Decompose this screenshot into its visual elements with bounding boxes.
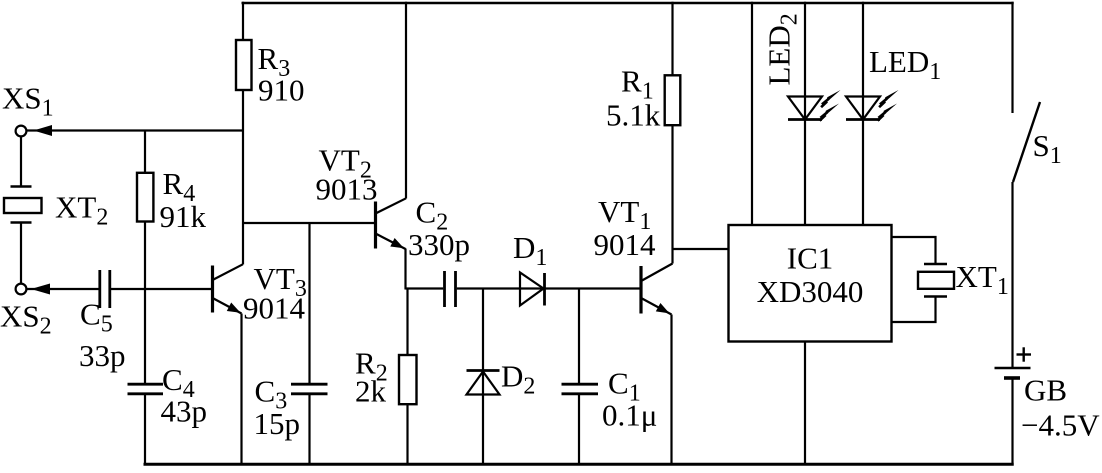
- wire C3 vertical upper: [308, 222, 310, 384]
- wire right rail above S1: [1011, 2, 1013, 113]
- svg-text:15p: 15p: [254, 406, 301, 441]
- wire base bus y=223 to VT2: [243, 222, 374, 224]
- wire C5 to VT3 base: [111, 288, 211, 290]
- svg-text:2k: 2k: [355, 374, 387, 409]
- svg-text:−4.5V: −4.5V: [1021, 408, 1100, 443]
- wire node to C2 left plate: [406, 287, 444, 289]
- capacitor C3 plates: [291, 384, 328, 394]
- svg-text:GB: GB: [1024, 373, 1067, 408]
- resistor R2: [399, 355, 417, 404]
- wire R2 vertical: [406, 289, 408, 466]
- wire VT1 collector branch to IC1: [673, 248, 729, 250]
- crystal XT1: [918, 264, 954, 297]
- resistor R1: [665, 75, 681, 125]
- LED LED2 light arrows: [820, 90, 841, 121]
- svg-text:9013: 9013: [316, 172, 378, 207]
- svg-text:5.1k: 5.1k: [606, 98, 661, 133]
- LED LED2: [788, 97, 822, 120]
- resistor R3: [236, 40, 252, 90]
- wire IC1 right top stub to XT1: [891, 237, 936, 264]
- node XS2 terminal circle: [16, 284, 27, 295]
- LED LED1: [846, 97, 880, 120]
- wire IC1 pin to top rail: [751, 2, 753, 225]
- resistor R4: [137, 173, 153, 222]
- wire LED2 bottom lead to IC1: [804, 120, 806, 226]
- wire XS2 horizontal left of C5: [27, 288, 99, 290]
- capacitor C5 plates: [100, 270, 110, 308]
- wire LED1 top lead: [862, 2, 864, 120]
- node XS1 arrowhead: [34, 125, 53, 136]
- node XS1 terminal circle: [16, 126, 27, 137]
- diode D1: [520, 273, 545, 306]
- svg-text:0.1μ: 0.1μ: [602, 398, 657, 433]
- wire IC1 right bottom stub to XT1: [891, 297, 936, 323]
- capacitor C4 plates: [128, 384, 164, 394]
- wire battery to ground rail: [1011, 379, 1013, 466]
- wire R1 vertical / VT1 collector line: [671, 2, 673, 264]
- wire S1 to battery: [1011, 182, 1013, 368]
- wire R4/C4 vertical upper: [144, 130, 146, 385]
- battery GB plus sign: [1017, 347, 1032, 361]
- diode D2: [467, 371, 500, 395]
- crystal XT2: [4, 187, 42, 223]
- wire VT3 emitter to ground rail: [240, 314, 242, 466]
- transistor VT3: [213, 264, 243, 313]
- wire VT2 emitter down to node: [404, 249, 406, 290]
- battery GB plates: [995, 368, 1031, 378]
- svg-text:IC1: IC1: [787, 241, 834, 276]
- wire D2 vertical: [482, 289, 484, 466]
- capacitor C2 plates: [445, 271, 456, 307]
- wire C4 bottom to ground rail: [144, 394, 146, 466]
- wire VT2 collector to top rail: [405, 2, 407, 199]
- wire IC1 bottom pin to ground rail: [804, 342, 806, 466]
- node XS2 arrowhead: [31, 284, 50, 295]
- svg-text:91k: 91k: [160, 199, 207, 234]
- svg-text:330p: 330p: [408, 227, 470, 262]
- wire VT1 emitter to ground rail: [670, 315, 672, 466]
- LED LED1 light arrows: [878, 90, 899, 121]
- capacitor C1 plates: [562, 384, 599, 394]
- switch S1 blade: [1013, 102, 1040, 182]
- svg-text:9014: 9014: [594, 227, 657, 262]
- wire LED1 bottom lead to IC1: [862, 120, 864, 226]
- wire C2 right plate to VT1 base (through D1): [457, 287, 640, 289]
- svg-text:9014: 9014: [243, 291, 306, 326]
- svg-text:910: 910: [258, 73, 305, 108]
- svg-text:43p: 43p: [161, 394, 208, 429]
- wire C3 bottom to ground rail: [308, 394, 310, 466]
- wire C1 bottom to ground rail: [578, 394, 580, 466]
- IC op U1 IC1 box: [729, 225, 892, 342]
- transistor VT1: [641, 264, 673, 315]
- transistor VT2: [376, 198, 407, 249]
- svg-text:33p: 33p: [79, 338, 126, 373]
- wire XT2 top lead: [20, 137, 22, 187]
- wire top supply rail: [242, 2, 1014, 5]
- svg-text:XD3040: XD3040: [757, 274, 864, 309]
- wire R3 vertical / VT3 collector line: [242, 2, 244, 265]
- wire bottom ground rail: [144, 463, 1014, 466]
- wire XT2 bottom lead: [20, 223, 22, 284]
- wire XS1 horizontal (y=130.5): [27, 129, 244, 131]
- wire C1 vertical upper: [578, 289, 580, 385]
- wire LED2 top lead: [804, 2, 806, 120]
